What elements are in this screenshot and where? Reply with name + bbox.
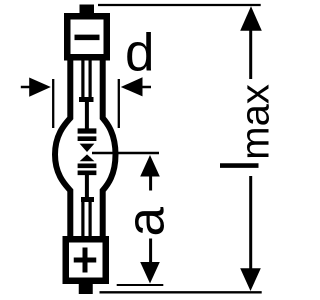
lamp top contact nub bbox=[80, 5, 95, 14]
lamp top base (minus terminal) bbox=[67, 16, 107, 57]
dimension a: bottom tick line bbox=[117, 284, 164, 286]
dimension l max: lower line segment bbox=[249, 176, 252, 269]
dimension a: top reference line from arc gap bbox=[92, 152, 159, 154]
svg-text:d: d bbox=[125, 24, 154, 83]
upper electrode coil bar 2 bbox=[78, 136, 97, 141]
upper stem crossbar bbox=[79, 97, 94, 102]
dimension a: lower line segment bbox=[149, 239, 152, 264]
upper electrode wire bbox=[85, 100, 89, 129]
lamp bottom base (plus terminal) bbox=[66, 239, 106, 281]
plus sign vertical bbox=[83, 248, 88, 273]
glass envelope right wall bbox=[103, 57, 116, 239]
dimension l max / lamp end: bottom reference line bbox=[100, 291, 262, 293]
dimension d: right extension tick bbox=[118, 79, 120, 128]
dimension d: right arrowhead (points left) bbox=[121, 77, 143, 96]
lower electrode wire bbox=[85, 175, 89, 200]
plus sign horizontal bbox=[74, 258, 97, 263]
dimension d: left extension tick bbox=[52, 79, 54, 128]
dimension l max: bottom arrowhead (points down) bbox=[240, 268, 261, 291]
dimension d: left leader line bbox=[21, 86, 30, 89]
upper inner stem tube left line bbox=[81, 60, 84, 100]
lower inner stem tube right line bbox=[88, 200, 91, 238]
glass envelope left wall bbox=[55, 57, 70, 239]
dimension a: bottom arrowhead (points down) bbox=[140, 262, 160, 284]
upper electrode tip (triangle down) bbox=[80, 144, 95, 152]
dimension a: upper line segment bbox=[149, 175, 152, 191]
lower stem crossbar bbox=[81, 197, 94, 202]
minus sign bbox=[75, 35, 100, 41]
lower electrode tip (triangle up) bbox=[80, 154, 95, 161]
upper electrode coil bar 1 bbox=[78, 128, 97, 133]
lower electrode coil bar 1 bbox=[78, 163, 97, 168]
dimension l max: top reference line bbox=[98, 4, 261, 6]
dimension l max: top arrowhead (points up) bbox=[240, 6, 262, 30]
dimension a: top arrowhead (points up) bbox=[140, 155, 160, 177]
dimension l max: upper line segment bbox=[249, 29, 252, 79]
lower electrode coil bar 2 bbox=[78, 170, 97, 175]
dimension d: right leader line bbox=[142, 86, 152, 89]
lower inner stem tube left line bbox=[81, 200, 84, 238]
lamp bottom contact nub bbox=[79, 284, 93, 295]
svg-text:a: a bbox=[117, 207, 176, 237]
dimension d: left arrowhead (points right) bbox=[29, 78, 51, 97]
upper inner stem tube right line bbox=[88, 60, 91, 100]
